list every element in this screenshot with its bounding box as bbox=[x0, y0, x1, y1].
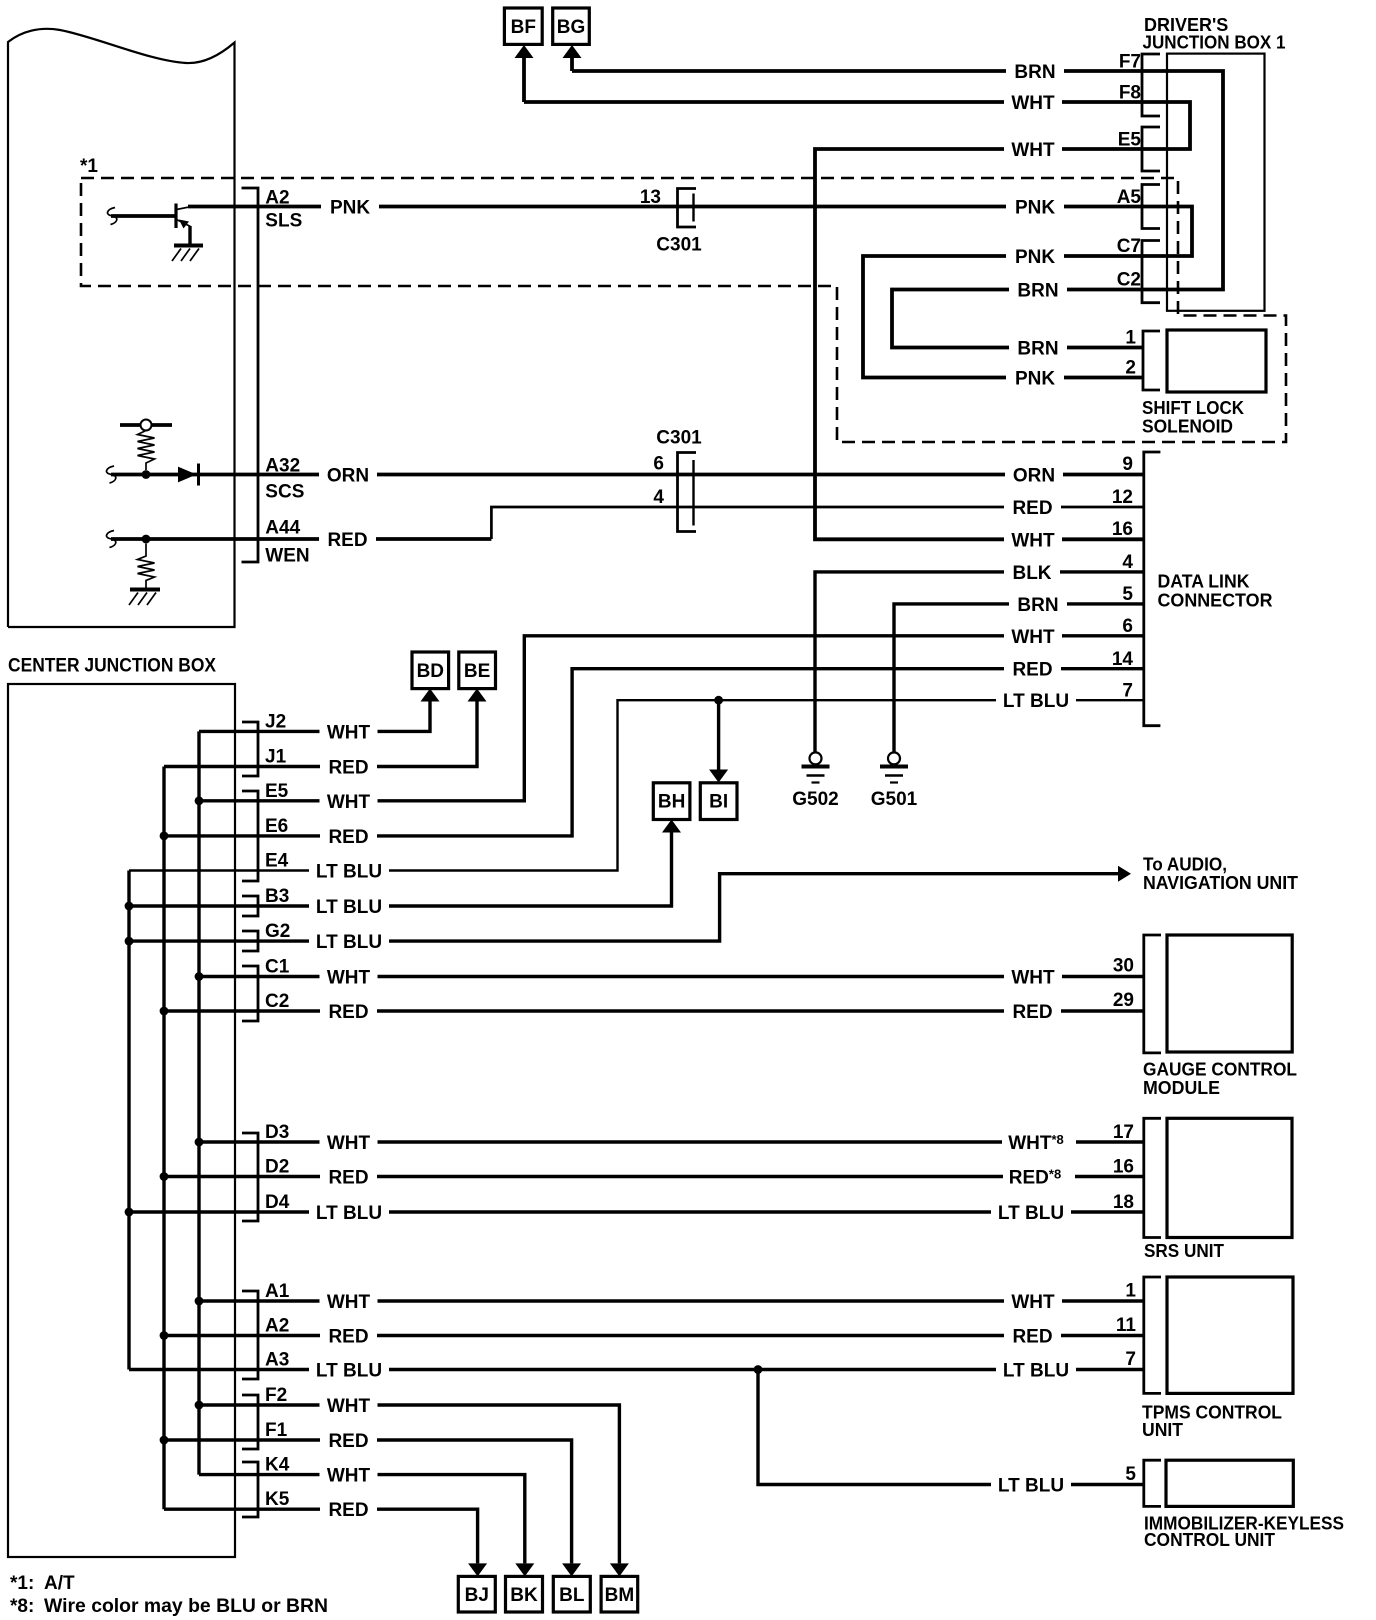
diode D1 (anode from A32 node) bbox=[178, 467, 197, 483]
pin bracket D3/D2/D4 bbox=[242, 1133, 258, 1221]
svg-text:RED: RED bbox=[328, 1500, 368, 1521]
svg-text:LT BLU: LT BLU bbox=[998, 1476, 1064, 1497]
svg-text:WEN: WEN bbox=[265, 546, 309, 567]
wire LT BLU A3 row to TPMS pin 7 bbox=[129, 1368, 1144, 1371]
svg-text:PNK: PNK bbox=[1015, 369, 1055, 390]
node dot D3 on bus 1 bbox=[195, 1138, 204, 1147]
svg-text:F2: F2 bbox=[265, 1385, 287, 1406]
svg-text:WHT: WHT bbox=[1011, 1292, 1055, 1313]
wire label BRN (solenoid 1) bbox=[1009, 338, 1067, 358]
immobilizer pin bracket bbox=[1144, 1460, 1161, 1506]
svg-text:13: 13 bbox=[640, 187, 661, 208]
svg-text:1: 1 bbox=[1125, 328, 1136, 349]
gauge control module pin bracket bbox=[1144, 935, 1161, 1053]
TPMS pin bracket bbox=[1144, 1277, 1161, 1393]
svg-text:RED: RED bbox=[1012, 1327, 1052, 1348]
svg-text:5: 5 bbox=[1122, 584, 1133, 605]
arrowhead into BI bbox=[709, 770, 728, 783]
svg-text:RED: RED bbox=[1012, 660, 1052, 681]
wire label WHT (C1 left) bbox=[320, 967, 378, 987]
internal bus 3 (x=129) bbox=[127, 871, 130, 1370]
node dot A2 on bus 2 bbox=[160, 1331, 169, 1340]
svg-text:6: 6 bbox=[1122, 616, 1133, 637]
wire label WHT (A1 left) bbox=[320, 1291, 378, 1311]
svg-text:CONNECTOR: CONNECTOR bbox=[1158, 591, 1273, 611]
svg-text:C301: C301 bbox=[656, 235, 702, 256]
svg-text:A5: A5 bbox=[1117, 187, 1142, 208]
wire RED K5 row to BJ bbox=[164, 1509, 478, 1563]
transistor base wire bbox=[111, 214, 175, 218]
svg-text:RED: RED bbox=[328, 1002, 368, 1023]
ground (A44 resistor) bbox=[130, 588, 160, 592]
SRS unit box bbox=[1167, 1118, 1292, 1237]
svg-text:WHT: WHT bbox=[327, 792, 371, 813]
pin bracket C1/C2 bbox=[242, 966, 258, 1021]
svg-text:WHT: WHT bbox=[1011, 93, 1055, 114]
svg-text:CENTER JUNCTION BOX: CENTER JUNCTION BOX bbox=[8, 656, 216, 677]
svg-text:E5: E5 bbox=[265, 781, 289, 802]
node dot A1 on bus 1 bbox=[195, 1297, 204, 1306]
svg-text:7: 7 bbox=[1125, 1349, 1136, 1370]
svg-text:F8: F8 bbox=[1119, 83, 1141, 104]
wire label PNK (A5) bbox=[1006, 197, 1064, 217]
transistor emitter diagonal bbox=[177, 220, 191, 227]
svg-text:29: 29 bbox=[1113, 990, 1134, 1011]
wire label PNK (C7) bbox=[1006, 246, 1064, 266]
wire label PNK (solenoid 2) bbox=[1006, 368, 1064, 388]
pin bracket B3 bbox=[242, 896, 258, 916]
connector C301 pins 6/4 inner bar bbox=[692, 460, 694, 526]
center junction box outline bbox=[8, 684, 235, 1557]
SRS unit pin bracket bbox=[1144, 1118, 1161, 1237]
svg-text:BE: BE bbox=[464, 661, 490, 682]
wire label LT BLU (D4 right) bbox=[991, 1202, 1071, 1222]
svg-text:LT BLU: LT BLU bbox=[316, 1203, 382, 1224]
node dot C1 on bus 1 bbox=[195, 972, 204, 981]
wire WHT from BF box through driver's box F8-E5 link down to DLC pin 16 bbox=[524, 102, 1190, 539]
wire LT BLU branch to immobilizer-keyless control unit pin 5 bbox=[758, 1370, 1144, 1485]
svg-text:D3: D3 bbox=[265, 1122, 289, 1143]
ground G501 symbol bbox=[888, 752, 900, 764]
connector box BK bbox=[506, 1576, 543, 1612]
svg-text:CONTROL UNIT: CONTROL UNIT bbox=[1144, 1530, 1275, 1550]
svg-text:G2: G2 bbox=[265, 921, 290, 942]
wire label RED (C2 left) bbox=[320, 1001, 377, 1021]
connector C301 pin 13 inner bar bbox=[692, 194, 694, 222]
wire continuation squiggle (base wire) bbox=[107, 208, 116, 225]
svg-text:BM: BM bbox=[605, 1585, 635, 1606]
svg-text:*1:: *1: bbox=[10, 1573, 34, 1594]
svg-text:G501: G501 bbox=[871, 789, 918, 810]
svg-text:C7: C7 bbox=[1117, 236, 1141, 257]
wire LT BLU B3 row to BH bbox=[129, 833, 672, 907]
svg-text:UNIT: UNIT bbox=[1142, 1420, 1183, 1440]
svg-text:BK: BK bbox=[510, 1585, 538, 1606]
arrowhead to audio unit bbox=[1118, 866, 1131, 882]
wire label WHT (K4) bbox=[320, 1465, 378, 1485]
svg-text:LT BLU: LT BLU bbox=[1003, 691, 1069, 712]
node dot B3 on bus 3 bbox=[125, 902, 134, 911]
svg-text:RED: RED bbox=[328, 1168, 368, 1189]
dashed A/T option region *1 bbox=[81, 178, 1286, 442]
wire PNK from transistor collector through C301 pin 13, driver's box A5-C7 link to shift lock solenoid pin 2 bbox=[188, 207, 1192, 378]
pin bracket C7/C2 bbox=[1142, 241, 1160, 303]
svg-text:RED: RED bbox=[1012, 1002, 1052, 1023]
svg-text:7: 7 bbox=[1122, 681, 1133, 702]
wire arrow stem into BF bbox=[522, 56, 526, 102]
svg-text:SRS UNIT: SRS UNIT bbox=[1144, 1241, 1224, 1261]
wire label LT BLU (A3 left) bbox=[309, 1360, 389, 1380]
wire LT BLU G2 row to audio navigation unit bbox=[129, 874, 1118, 941]
internal bus 1 (x=199) bbox=[197, 731, 200, 1474]
svg-text:4: 4 bbox=[1122, 552, 1133, 573]
svg-text:G502: G502 bbox=[792, 789, 838, 810]
svg-text:16: 16 bbox=[1112, 519, 1133, 540]
pull-up supply bar (A32 row) bbox=[120, 423, 172, 427]
connector box BF bbox=[504, 8, 542, 44]
svg-text:A/T: A/T bbox=[44, 1573, 75, 1594]
wire RED jog up to C301 pin 4 and on to DLC pin 12 bbox=[491, 507, 1143, 539]
svg-text:BRN: BRN bbox=[1017, 339, 1058, 360]
svg-text:RED: RED bbox=[328, 1431, 368, 1452]
connector C301 pin 13 bracket bbox=[678, 189, 697, 228]
svg-text:GAUGE CONTROL: GAUGE CONTROL bbox=[1143, 1060, 1297, 1080]
TPMS control unit box bbox=[1167, 1277, 1293, 1393]
wire BLK DLC pin 4 to ground G502 bbox=[815, 572, 1144, 752]
svg-text:*1: *1 bbox=[80, 156, 98, 177]
svg-text:WHT: WHT bbox=[327, 1466, 371, 1487]
node dot LT BLU branch to BI bbox=[714, 696, 723, 705]
wire arrow stem into BI bbox=[717, 700, 720, 770]
connector box BD bbox=[412, 652, 449, 689]
connector box BJ bbox=[458, 1576, 495, 1612]
svg-text:ORN: ORN bbox=[1013, 466, 1055, 487]
svg-text:WHT: WHT bbox=[1011, 140, 1055, 161]
svg-text:PNK: PNK bbox=[1015, 247, 1055, 268]
svg-text:PNK: PNK bbox=[330, 198, 370, 219]
wire RED A2 row to TPMS pin 11 bbox=[164, 1334, 1144, 1337]
svg-text:BG: BG bbox=[557, 17, 586, 38]
svg-text:B3: B3 bbox=[265, 886, 289, 907]
wire label WHT (E5) bbox=[320, 791, 378, 811]
wire WHT J2 row to BD bbox=[199, 702, 430, 732]
svg-text:BD: BD bbox=[417, 661, 444, 682]
svg-text:LT BLU: LT BLU bbox=[316, 897, 382, 918]
wire label RED (DLC 14) bbox=[1004, 659, 1061, 679]
wire label BRN (C2) bbox=[1009, 280, 1067, 300]
svg-text:C301: C301 bbox=[656, 428, 702, 449]
wire label RED (E6) bbox=[320, 826, 377, 846]
svg-text:RED: RED bbox=[328, 758, 368, 779]
wire WHT D3 row to SRS unit pin 17 bbox=[199, 1140, 1144, 1143]
svg-text:A44: A44 bbox=[265, 518, 300, 539]
pin bracket G2 bbox=[242, 931, 258, 951]
svg-text:16: 16 bbox=[1113, 1157, 1134, 1178]
wire label WHT*8 (D3 right) bbox=[1002, 1132, 1076, 1152]
wire label LT BLU (E4) bbox=[309, 861, 389, 881]
svg-text:E4: E4 bbox=[265, 851, 289, 872]
wire label RED (A2 left) bbox=[320, 1326, 377, 1346]
wire WHT K4 row to BK bbox=[199, 1475, 525, 1564]
svg-text:F7: F7 bbox=[1119, 52, 1141, 73]
svg-text:RED: RED bbox=[328, 1327, 368, 1348]
svg-text:C2: C2 bbox=[265, 991, 289, 1012]
ECM/PCM box (partial, wavy top) bbox=[8, 29, 235, 627]
wire label RED (K5) bbox=[320, 1499, 377, 1519]
svg-text:WHT: WHT bbox=[327, 1292, 371, 1313]
arrowhead into BG bbox=[563, 45, 582, 58]
wire BRN from BG box through driver's box F7-C2 link to shift lock solenoid pin 1 bbox=[572, 71, 1223, 348]
pin bracket K4/K5 bbox=[242, 1462, 258, 1517]
svg-text:11: 11 bbox=[1116, 1315, 1137, 1336]
svg-text:MODULE: MODULE bbox=[1143, 1078, 1220, 1098]
transistor collector diagonal bbox=[177, 207, 191, 210]
svg-text:A2: A2 bbox=[265, 1316, 289, 1337]
internal bus 2 (x=164) bbox=[162, 767, 165, 1510]
svg-text:RED: RED bbox=[1012, 498, 1052, 519]
node dot D2 on bus 2 bbox=[160, 1172, 169, 1181]
svg-text:2: 2 bbox=[1125, 358, 1136, 379]
wire label LT BLU (A3 right) bbox=[996, 1360, 1076, 1380]
svg-text:LT BLU: LT BLU bbox=[1003, 1361, 1069, 1382]
svg-text:5: 5 bbox=[1125, 1464, 1136, 1485]
data link connector bracket bbox=[1144, 452, 1161, 726]
wire RED A44 row to jog bbox=[111, 537, 491, 541]
pin bracket F2/F1 bbox=[242, 1395, 258, 1449]
wire continuation squiggle (A44) bbox=[106, 531, 115, 548]
pin bracket J2/J1 bbox=[242, 722, 258, 776]
gauge control module box bbox=[1167, 935, 1292, 1052]
svg-text:9: 9 bbox=[1122, 454, 1133, 475]
svg-text:ORN: ORN bbox=[327, 466, 369, 487]
wire label WHT (DLC 16) bbox=[1004, 529, 1062, 549]
driver's junction box 1 outline bbox=[1167, 54, 1265, 311]
wire label RED (A44 row left) bbox=[319, 529, 376, 549]
arrowhead into BE bbox=[468, 689, 487, 702]
connector box BM bbox=[601, 1576, 638, 1612]
resistor R (pull-up, hand-drawn) bbox=[138, 431, 155, 471]
node dot F1 on bus 2 bbox=[160, 1436, 169, 1445]
svg-text:BJ: BJ bbox=[465, 1585, 489, 1606]
svg-text:E6: E6 bbox=[265, 816, 288, 837]
svg-text:K4: K4 bbox=[265, 1455, 290, 1476]
node dot F2 on bus 1 bbox=[195, 1401, 204, 1410]
svg-text:A2: A2 bbox=[265, 188, 289, 209]
arrowhead into BF bbox=[515, 45, 534, 58]
wire WHT F2 row to BM bbox=[199, 1405, 619, 1563]
wire label WHT (E5) bbox=[1004, 139, 1062, 159]
wire RED F1 row to BL bbox=[164, 1440, 572, 1563]
svg-text:C1: C1 bbox=[265, 957, 290, 978]
svg-text:RED: RED bbox=[328, 827, 368, 848]
svg-text:14: 14 bbox=[1112, 649, 1134, 670]
svg-text:LT BLU: LT BLU bbox=[316, 1361, 382, 1382]
svg-text:WHT: WHT bbox=[327, 722, 371, 743]
transistor emitter lead down bbox=[188, 226, 191, 244]
wire arrow stem into BG bbox=[570, 56, 574, 71]
node dot D4 on bus 3 bbox=[125, 1208, 134, 1217]
wire label RED (A2 right) bbox=[1004, 1326, 1061, 1346]
node dot G2 on bus 3 bbox=[125, 937, 134, 946]
wire label WHT (C1 right) bbox=[1004, 967, 1062, 987]
svg-text:BI: BI bbox=[709, 792, 728, 813]
wire WHT DLC pin 6 to center junction box E5 bbox=[199, 636, 1144, 801]
connector box BG bbox=[553, 8, 590, 44]
connector C301 pins 6/4 bracket bbox=[678, 453, 697, 532]
svg-text:WHT: WHT bbox=[1011, 968, 1055, 989]
svg-text:17: 17 bbox=[1113, 1122, 1134, 1143]
pin bracket A5 bbox=[1142, 185, 1160, 229]
wire WHT C1 row to gauge control module pin 30 bbox=[199, 975, 1144, 978]
ground (transistor emitter) bbox=[174, 244, 203, 248]
svg-text:BH: BH bbox=[658, 792, 685, 813]
node dot A3 branch to immobilizer bbox=[754, 1365, 763, 1374]
svg-text:C2: C2 bbox=[1117, 270, 1141, 291]
wire label WHT (J2) bbox=[320, 721, 378, 741]
wire continuation squiggle (A32) bbox=[106, 466, 115, 483]
svg-text:J1: J1 bbox=[265, 747, 287, 768]
node dot E6 on bus 2 bbox=[160, 832, 169, 841]
node dot C2 on bus 2 bbox=[160, 1007, 169, 1016]
svg-text:30: 30 bbox=[1113, 956, 1134, 977]
svg-text:F1: F1 bbox=[265, 1420, 288, 1441]
wire label ORN (DLC 9) bbox=[1005, 465, 1063, 485]
svg-text:K5: K5 bbox=[265, 1489, 290, 1510]
svg-text:6: 6 bbox=[653, 454, 664, 475]
svg-text:WHT: WHT bbox=[327, 1133, 371, 1154]
svg-text:BRN: BRN bbox=[1014, 62, 1055, 83]
wire label BRN (DLC 5) bbox=[1009, 594, 1067, 614]
svg-text:SHIFT LOCK: SHIFT LOCK bbox=[1142, 398, 1244, 418]
svg-text:SCS: SCS bbox=[265, 482, 304, 503]
wire RED C2 row to gauge control module pin 29 bbox=[164, 1009, 1144, 1012]
wire label ORN (A32 row left) bbox=[319, 465, 377, 485]
wire ORN A32 row bbox=[111, 473, 1144, 477]
svg-text:WHT: WHT bbox=[327, 968, 371, 989]
svg-text:D4: D4 bbox=[265, 1192, 290, 1213]
wire LT BLU D4 row to SRS unit pin 18 bbox=[129, 1210, 1144, 1213]
arrowhead into BM bbox=[610, 1563, 629, 1576]
svg-text:DATA LINK: DATA LINK bbox=[1158, 572, 1250, 592]
svg-text:WHT: WHT bbox=[327, 1396, 371, 1417]
node dot E5 on bus 1 bbox=[195, 796, 204, 805]
wire RED D2 row to SRS unit pin 16 bbox=[164, 1175, 1144, 1178]
svg-text:JUNCTION BOX 1: JUNCTION BOX 1 bbox=[1143, 33, 1286, 53]
arrowhead into BJ bbox=[468, 1563, 487, 1576]
connector box BI bbox=[700, 783, 737, 820]
svg-text:LT BLU: LT BLU bbox=[316, 862, 382, 883]
svg-text:A3: A3 bbox=[265, 1350, 289, 1371]
node dot A32 junction bbox=[142, 470, 151, 479]
wire label WHT (F2) bbox=[320, 1395, 378, 1415]
wire label PNK (A2 row left) bbox=[321, 197, 379, 217]
svg-text:4: 4 bbox=[653, 487, 664, 508]
wire RED J1 row to BE bbox=[164, 702, 477, 767]
wire RED DLC pin 14 to center junction box E6 bbox=[164, 669, 1144, 836]
pin bracket F7/F8 bbox=[1142, 54, 1160, 116]
wire label LT BLU (B3) bbox=[309, 896, 389, 916]
svg-text:BLK: BLK bbox=[1012, 563, 1051, 584]
ECM connector bracket A2/A32/A44 bbox=[242, 188, 259, 562]
svg-text:18: 18 bbox=[1113, 1192, 1134, 1213]
svg-text:A32: A32 bbox=[265, 456, 300, 477]
svg-text:To AUDIO,: To AUDIO, bbox=[1143, 855, 1227, 875]
wire label RED (F1) bbox=[320, 1430, 377, 1450]
diode D1 cathode bar bbox=[197, 464, 200, 486]
svg-text:BRN: BRN bbox=[1017, 281, 1058, 302]
wire label LT BLU (D4 left) bbox=[309, 1202, 389, 1222]
svg-text:SLS: SLS bbox=[265, 211, 302, 232]
wire label RED (DLC 12) bbox=[1004, 497, 1061, 517]
svg-text:WHT: WHT bbox=[1011, 627, 1055, 648]
svg-text:J2: J2 bbox=[265, 711, 286, 732]
wire LT BLU DLC pin 7 to center junction box E4 bbox=[129, 700, 1144, 870]
svg-text:D2: D2 bbox=[265, 1157, 289, 1178]
connector box BH bbox=[653, 783, 690, 820]
arrowhead into BL bbox=[562, 1563, 581, 1576]
transistor Q1 (SLS driver) base bar bbox=[174, 204, 177, 229]
wire label WHT (DLC 6) bbox=[1004, 626, 1062, 646]
transistor emitter arrowhead (PNP, pointing to base bar) bbox=[179, 220, 189, 229]
svg-text:Wire color may be BLU or BRN: Wire color may be BLU or BRN bbox=[44, 1596, 328, 1617]
svg-text:SOLENOID: SOLENOID bbox=[1142, 417, 1233, 437]
pull-up terminal circle bbox=[141, 420, 152, 431]
shift lock solenoid pin bracket bbox=[1143, 331, 1160, 390]
svg-text:BL: BL bbox=[559, 1585, 585, 1606]
wire label LT BLU (G2) bbox=[309, 931, 389, 951]
wire label WHT (A1 right) bbox=[1004, 1291, 1062, 1311]
svg-text:A1: A1 bbox=[265, 1281, 290, 1302]
svg-text:1: 1 bbox=[1125, 1281, 1136, 1302]
wire label RED*8 (D2 right) bbox=[1003, 1167, 1075, 1187]
immobilizer-keyless control unit box bbox=[1166, 1460, 1293, 1506]
svg-text:PNK: PNK bbox=[1015, 198, 1055, 219]
wire label WHT (F8) bbox=[1004, 92, 1062, 112]
svg-text:RED: RED bbox=[327, 530, 367, 551]
arrowhead into BK bbox=[515, 1563, 534, 1576]
shift lock solenoid box bbox=[1167, 330, 1266, 392]
pin bracket A1/A2/A3 bbox=[242, 1291, 258, 1379]
pin bracket E5/E6/E4 bbox=[242, 791, 258, 881]
wire label RED (J1) bbox=[320, 757, 377, 777]
svg-text:LT BLU: LT BLU bbox=[316, 932, 382, 953]
svg-text:12: 12 bbox=[1112, 487, 1133, 508]
arrowhead into BD bbox=[421, 689, 440, 702]
svg-text:*8:: *8: bbox=[10, 1596, 34, 1617]
arrowhead into BH bbox=[662, 820, 681, 833]
ground G502 symbol bbox=[810, 752, 822, 764]
wire label BLK (DLC 4) bbox=[1004, 562, 1060, 582]
connector box BL bbox=[553, 1576, 590, 1612]
svg-text:BF: BF bbox=[511, 17, 536, 38]
svg-text:E5: E5 bbox=[1118, 130, 1142, 151]
resistor R (A44 pull-down, hand-drawn) bbox=[138, 544, 155, 588]
wire label LT BLU (immobilizer row) bbox=[991, 1475, 1071, 1495]
wire label WHT (D3 left) bbox=[320, 1132, 378, 1152]
wire label LT BLU (DLC 7) bbox=[996, 690, 1076, 710]
wire WHT A1 row to TPMS pin 1 bbox=[199, 1299, 1144, 1302]
wire label RED (C2 right) bbox=[1004, 1001, 1061, 1021]
node dot A44 junction bbox=[142, 535, 151, 544]
connector box BE bbox=[459, 652, 496, 689]
svg-text:BRN: BRN bbox=[1017, 595, 1058, 616]
wire BRN DLC pin 5 to ground G501 bbox=[894, 604, 1144, 752]
svg-text:LT BLU: LT BLU bbox=[998, 1203, 1064, 1224]
wire label BRN (F7) bbox=[1006, 61, 1064, 81]
svg-text:NAVIGATION UNIT: NAVIGATION UNIT bbox=[1143, 873, 1298, 893]
pin bracket E5 bbox=[1142, 127, 1160, 171]
wire label RED (D2 left) bbox=[320, 1167, 377, 1187]
